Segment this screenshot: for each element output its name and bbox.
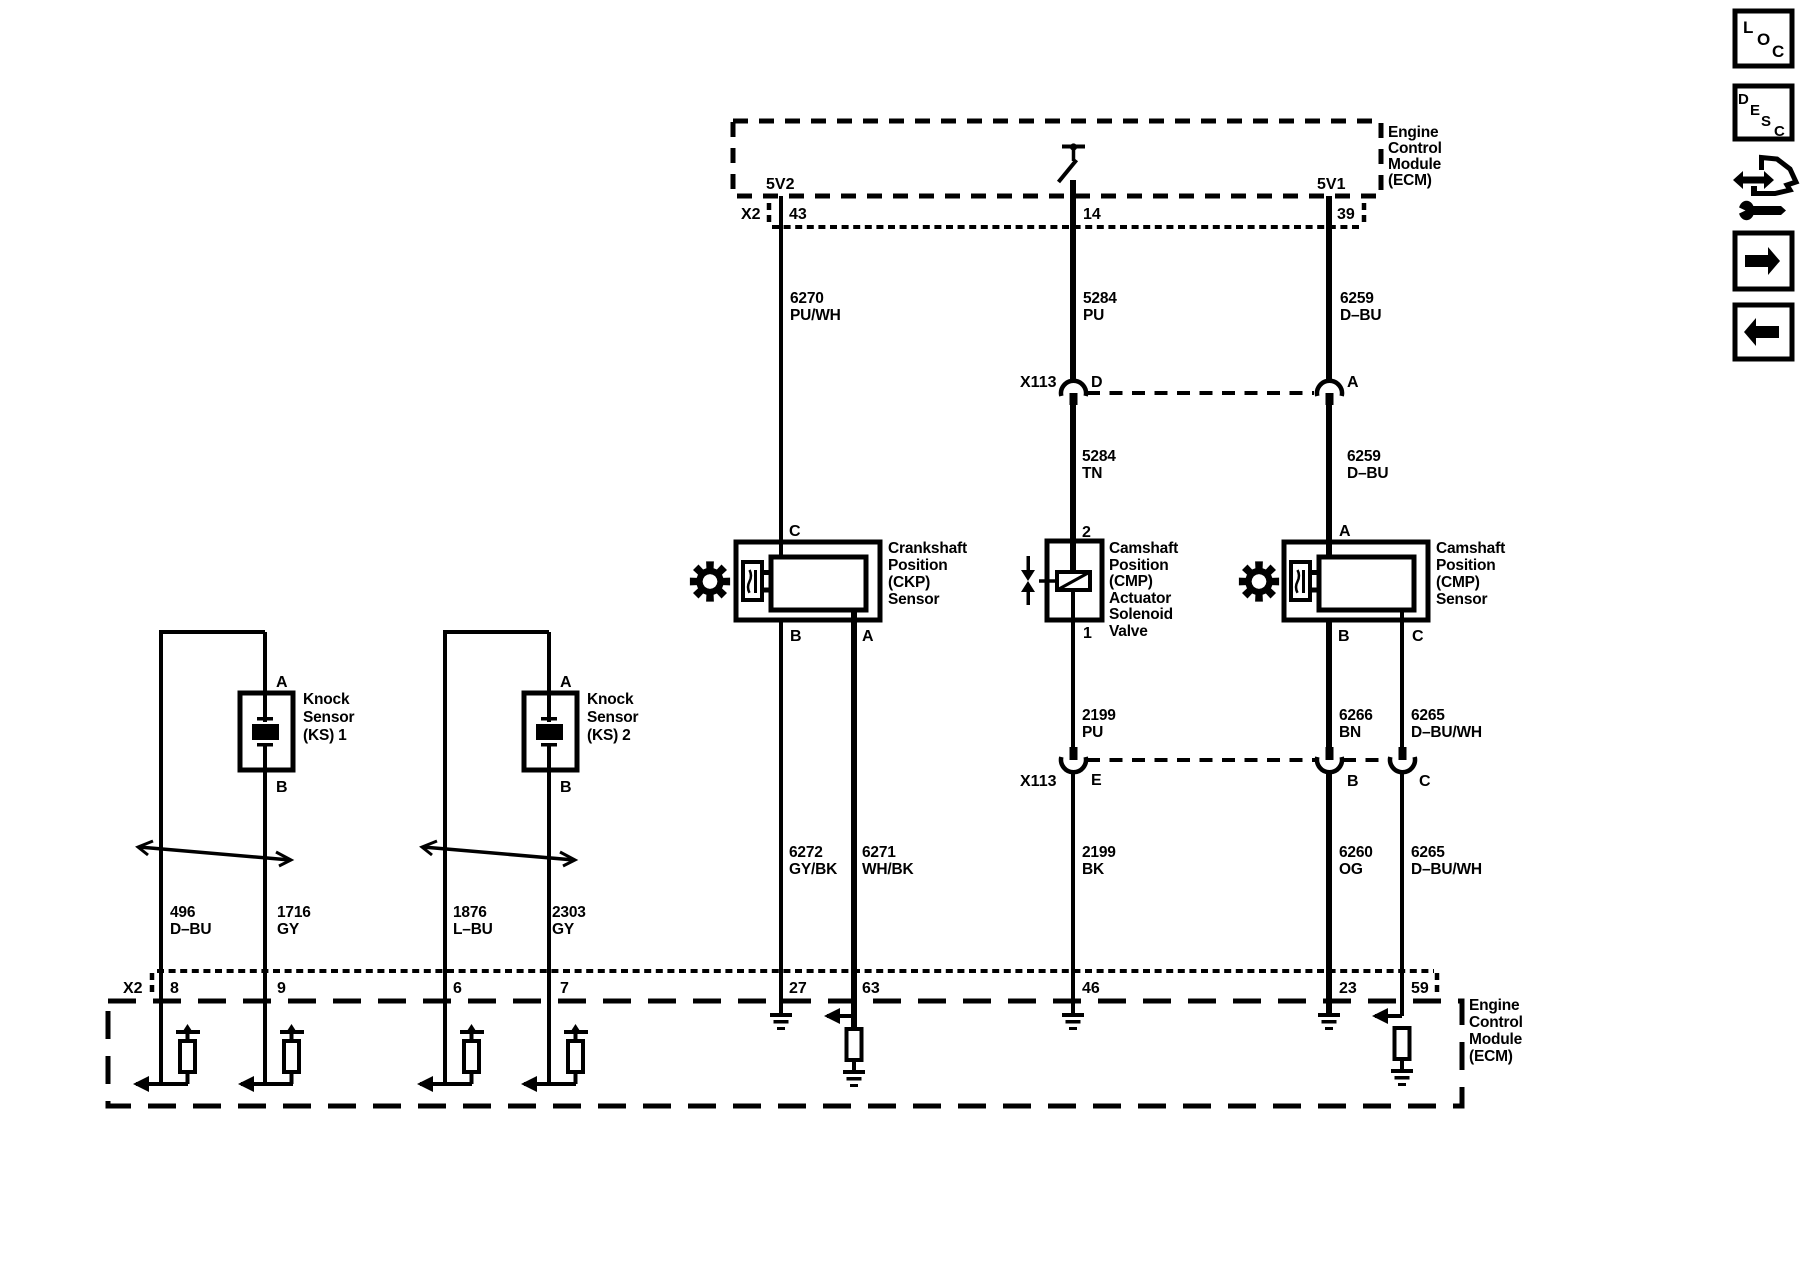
svg-text:C: C <box>1772 42 1784 61</box>
wire 6270 PU/WH: ECM pin 43 to CKP pin C <box>779 196 783 556</box>
CKP sensor gear icon <box>690 561 730 601</box>
KS1 pin A wire <box>263 632 267 722</box>
CKP pickup link bar lower <box>762 588 771 593</box>
svg-text:2199: 2199 <box>1082 707 1116 724</box>
svg-text:D: D <box>1091 374 1103 391</box>
CMP pickup inner bar <box>1302 570 1305 593</box>
svg-text:B: B <box>560 779 572 796</box>
svg-text:Position: Position <box>1109 557 1169 574</box>
CMP sensor gear icon <box>1239 561 1279 601</box>
svg-text:Knock: Knock <box>303 691 350 708</box>
KS1 loop top wire <box>159 630 265 634</box>
svg-text:43: 43 <box>789 206 807 223</box>
svg-text:Valve: Valve <box>1109 623 1148 640</box>
X113 terminal C stub <box>1399 747 1407 760</box>
svg-text:OG: OG <box>1339 861 1363 878</box>
KS1 twisted pair marker <box>138 841 291 866</box>
wire 6259 D-BU: ECM pin 39 to X113 A <box>1326 196 1332 382</box>
svg-text:Module: Module <box>1469 1031 1523 1048</box>
X2 bottom right tick <box>1435 973 1440 997</box>
svg-text:Position: Position <box>888 557 948 574</box>
svg-text:WH/BK: WH/BK <box>862 861 915 878</box>
svg-text:B: B <box>1347 773 1359 790</box>
KS2 pin B wire 2303 GY <box>547 744 551 1084</box>
svg-text:6266: 6266 <box>1339 707 1373 724</box>
X113 terminal A arc <box>1317 381 1342 396</box>
wire 6272 GY/BK: CKP pin B to ECM pin 27 <box>779 620 783 1013</box>
svg-text:1: 1 <box>1083 625 1092 642</box>
svg-text:Sensor: Sensor <box>1436 591 1488 608</box>
swap/relocate icon <box>1733 158 1796 221</box>
svg-text:6270: 6270 <box>790 290 824 307</box>
X113 bottom dashed connector line (B to C) <box>1343 758 1389 762</box>
svg-text:9: 9 <box>277 980 286 997</box>
CKP pickup link bar upper <box>762 570 771 575</box>
wire 6260 OG: X113 B to ECM pin 23 <box>1326 770 1332 1013</box>
svg-text:Control: Control <box>1388 140 1442 157</box>
pin 9 internal resistor <box>280 1024 304 1084</box>
svg-text:6: 6 <box>453 980 462 997</box>
KS1 piezo element <box>252 717 279 747</box>
valve outer box <box>1047 541 1102 620</box>
pin 9 internal: arrow wire <box>238 971 293 1092</box>
X113 bottom dashed connector line (E to B) <box>1087 758 1316 762</box>
svg-text:46: 46 <box>1082 980 1100 997</box>
svg-text:BK: BK <box>1082 861 1105 878</box>
CMP pickup inner wavy line <box>1296 570 1299 593</box>
pin 7 internal resistor <box>564 1024 588 1084</box>
svg-text:27: 27 <box>789 980 807 997</box>
pin 63 resistor ground <box>843 1060 865 1087</box>
svg-text:C: C <box>1774 123 1785 140</box>
wire 2199 PU: valve pin 1 to X113 E <box>1071 589 1075 749</box>
svg-text:39: 39 <box>1337 206 1355 223</box>
pin 63 internal arrow <box>824 1008 854 1024</box>
svg-text:B: B <box>276 779 288 796</box>
switch symbol inside ECM (circuit 14) <box>1059 143 1086 182</box>
svg-text:5284: 5284 <box>1082 448 1116 465</box>
svg-text:L: L <box>1743 18 1753 37</box>
ECM module dashed box (top) <box>733 121 1381 196</box>
pin 7 internal: arrow wire <box>521 971 576 1092</box>
solenoid coil rect <box>1057 572 1090 590</box>
CMP pickup link bar upper <box>1310 570 1319 575</box>
svg-text:Camshaft: Camshaft <box>1109 540 1178 557</box>
X2 bottom dotted line <box>157 969 1434 973</box>
svg-text:S: S <box>1761 113 1771 130</box>
X113 terminal D stub <box>1070 393 1078 405</box>
svg-text:B: B <box>1338 628 1350 645</box>
wire 2199 BK: X113 E to ECM pin 46 <box>1071 770 1075 1013</box>
svg-text:63: 63 <box>862 980 880 997</box>
svg-text:D–BU: D–BU <box>1347 465 1388 482</box>
X113 terminal B arc <box>1317 757 1342 772</box>
KS1 sensor box <box>240 693 293 770</box>
valve arrows symbol <box>1021 556 1035 605</box>
svg-text:B: B <box>790 628 802 645</box>
svg-text:7: 7 <box>560 980 569 997</box>
KS2 piezo element <box>536 717 563 747</box>
svg-text:23: 23 <box>1339 980 1357 997</box>
svg-text:Camshaft: Camshaft <box>1436 540 1505 557</box>
CMP sensor outer box <box>1284 542 1428 620</box>
svg-text:X2: X2 <box>123 980 143 997</box>
pin 59 internal resistor <box>1395 1028 1410 1059</box>
wire 5284 PU: switch to X113 D <box>1070 180 1076 382</box>
KS1 left wire 496 D-BU <box>159 630 163 1084</box>
svg-text:(CMP): (CMP) <box>1109 573 1153 590</box>
pin 59 resistor ground <box>1391 1059 1413 1086</box>
pin 23 ground <box>1318 1013 1340 1030</box>
svg-text:Actuator: Actuator <box>1109 590 1171 607</box>
svg-text:X2: X2 <box>741 206 761 223</box>
X113 terminal E stub <box>1070 747 1078 760</box>
svg-text:A: A <box>1339 523 1351 540</box>
svg-text:D–BU: D–BU <box>1340 307 1381 324</box>
KS2 sensor box <box>524 693 577 770</box>
CMP sensor pickup element <box>1291 562 1310 600</box>
svg-text:1716: 1716 <box>277 904 311 921</box>
svg-text:Sensor: Sensor <box>587 709 639 726</box>
svg-text:D–BU/WH: D–BU/WH <box>1411 861 1482 878</box>
svg-text:Sensor: Sensor <box>303 709 355 726</box>
wire 6265 D-BU/WH: X113 C to ECM pin 59 <box>1400 770 1404 1016</box>
CMP sensor inner box <box>1319 557 1414 610</box>
svg-text:5V2: 5V2 <box>766 176 795 193</box>
svg-text:(ECM): (ECM) <box>1469 1048 1513 1065</box>
svg-text:(CKP): (CKP) <box>888 574 930 591</box>
svg-text:Control: Control <box>1469 1014 1523 1031</box>
svg-text:5284: 5284 <box>1083 290 1117 307</box>
svg-text:O: O <box>1757 30 1770 49</box>
svg-text:6259: 6259 <box>1347 448 1381 465</box>
pin 27 ground <box>770 1013 792 1030</box>
svg-text:1876: 1876 <box>453 904 487 921</box>
svg-text:GY: GY <box>552 921 575 938</box>
svg-text:6260: 6260 <box>1339 844 1373 861</box>
svg-text:D–BU: D–BU <box>170 921 211 938</box>
X2 bottom left tick <box>150 973 155 997</box>
CKP sensor outer box <box>736 542 880 620</box>
X2 connector row (top) dotted line <box>772 225 1363 229</box>
CKP pickup inner bar <box>754 570 757 593</box>
svg-text:A: A <box>862 628 874 645</box>
wire 6265 D-BU/WH: CMP pin C to X113 C <box>1400 610 1404 749</box>
X113 terminal C arc <box>1390 757 1415 772</box>
KS2 pin A wire <box>547 632 551 722</box>
svg-text:PU/WH: PU/WH <box>790 307 841 324</box>
pin 46 ground <box>1062 1013 1084 1030</box>
pin 6 internal resistor <box>460 1024 484 1084</box>
svg-text:PU: PU <box>1083 307 1104 324</box>
svg-text:(KS) 2: (KS) 2 <box>587 727 631 744</box>
solenoid left stub <box>1039 579 1057 583</box>
svg-text:Position: Position <box>1436 557 1496 574</box>
DESC button <box>1735 86 1792 139</box>
svg-text:A: A <box>1347 374 1359 391</box>
svg-text:A: A <box>276 674 288 691</box>
svg-text:C: C <box>1419 773 1431 790</box>
svg-text:Knock: Knock <box>587 691 634 708</box>
pin 8 internal resistor <box>176 1024 200 1084</box>
pin 8 internal: arrow wire <box>133 971 188 1092</box>
KS2 left wire 1876 L-BU <box>443 630 447 1084</box>
svg-text:14: 14 <box>1083 206 1101 223</box>
X113 terminal E arc <box>1061 757 1086 772</box>
svg-text:Sensor: Sensor <box>888 591 940 608</box>
CKP sensor inner box <box>771 557 866 610</box>
svg-text:E: E <box>1750 102 1760 119</box>
svg-text:A: A <box>560 674 572 691</box>
svg-text:5V1: 5V1 <box>1317 176 1346 193</box>
svg-text:6271: 6271 <box>862 844 896 861</box>
svg-text:8: 8 <box>170 980 179 997</box>
wire 6266 BN: CMP pin B to X113 B <box>1326 620 1332 749</box>
svg-text:59: 59 <box>1411 980 1429 997</box>
svg-text:6272: 6272 <box>789 844 823 861</box>
svg-text:D–BU/WH: D–BU/WH <box>1411 724 1482 741</box>
svg-text:GY/BK: GY/BK <box>789 861 838 878</box>
svg-text:D: D <box>1738 91 1749 108</box>
svg-text:Module: Module <box>1388 156 1442 173</box>
CKP sensor pickup element <box>743 562 762 600</box>
svg-text:(ECM): (ECM) <box>1388 172 1432 189</box>
svg-text:496: 496 <box>170 904 196 921</box>
next arrow button <box>1735 233 1792 289</box>
svg-text:6265: 6265 <box>1411 707 1445 724</box>
pin 6 internal: arrow wire <box>417 971 472 1092</box>
X113 top dashed connector line <box>1087 391 1314 395</box>
KS2 twisted pair marker <box>422 841 575 866</box>
svg-text:6259: 6259 <box>1340 290 1374 307</box>
svg-text:Crankshaft: Crankshaft <box>888 540 967 557</box>
svg-text:BN: BN <box>1339 724 1361 741</box>
svg-text:6265: 6265 <box>1411 844 1445 861</box>
back arrow button <box>1735 305 1792 359</box>
X113 terminal A stub <box>1326 393 1334 405</box>
svg-text:2303: 2303 <box>552 904 586 921</box>
pin 59 internal arrow <box>1372 1008 1402 1024</box>
ECM module dashed box (bottom) <box>108 1001 1462 1106</box>
LOC button <box>1735 11 1792 66</box>
svg-text:X113: X113 <box>1020 773 1057 790</box>
svg-text:Solenoid: Solenoid <box>1109 606 1173 623</box>
svg-text:Engine: Engine <box>1388 124 1439 141</box>
X113 terminal B stub <box>1326 747 1334 760</box>
svg-text:2199: 2199 <box>1082 844 1116 861</box>
svg-text:C: C <box>789 523 801 540</box>
KS1 pin B wire 1716 GY <box>263 744 267 1084</box>
svg-text:X113: X113 <box>1020 374 1057 391</box>
pin 63 internal resistor <box>847 1029 862 1060</box>
wire 6259 D-BU: X113 A to CMP pin A <box>1326 404 1332 556</box>
svg-text:E: E <box>1091 772 1102 789</box>
svg-text:2: 2 <box>1082 524 1091 541</box>
svg-text:L–BU: L–BU <box>453 921 493 938</box>
X2 connector right tick (top) <box>1362 203 1367 227</box>
svg-text:(CMP): (CMP) <box>1436 574 1480 591</box>
svg-text:C: C <box>1412 628 1424 645</box>
svg-text:TN: TN <box>1082 465 1102 482</box>
wire 5284 TN: X113 D to valve pin 2 <box>1070 404 1076 573</box>
KS2 loop top wire <box>443 630 549 634</box>
wire 6271 WH/BK: CKP pin A to ECM pin 63 <box>851 610 857 1030</box>
svg-text:PU: PU <box>1082 724 1103 741</box>
X2 connector left tick (top) <box>767 203 772 227</box>
CKP pickup inner wavy line <box>748 570 751 593</box>
svg-text:(KS) 1: (KS) 1 <box>303 727 347 744</box>
svg-text:Engine: Engine <box>1469 997 1520 1014</box>
solenoid diagonal <box>1059 573 1088 589</box>
X113 terminal D arc <box>1061 381 1086 396</box>
svg-text:GY: GY <box>277 921 300 938</box>
CMP pickup link bar lower <box>1310 588 1319 593</box>
